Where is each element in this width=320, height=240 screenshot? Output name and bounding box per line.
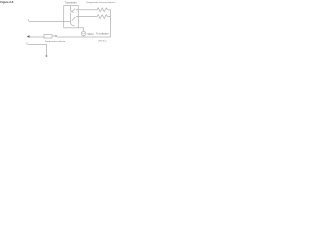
svg-text:28V bus: 28V bus [98,41,107,43]
svg-text:To indicator: To indicator [96,32,109,35]
svg-text:Motor: Motor [88,33,94,36]
svg-text:Temperature sensing element: Temperature sensing element [86,1,115,4]
svg-text:Transmitter: Transmitter [65,1,77,4]
svg-text:Temperature selector: Temperature selector [45,40,66,43]
svg-text:Figure 2-8: Figure 2-8 [0,0,13,4]
